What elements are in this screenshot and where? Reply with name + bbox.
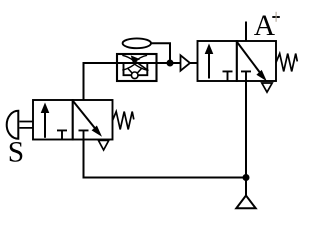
wire S bottom supply line <box>84 140 247 178</box>
svg-text:S: S <box>8 137 24 169</box>
reservoir (air volume) <box>123 38 151 48</box>
wire valve A bottom supply line <box>245 81 247 195</box>
valve S blocked port T right <box>79 130 89 139</box>
valve S body right box <box>73 100 113 140</box>
wire pilot apex to valve A left port <box>190 62 198 64</box>
wire valve A top working line <box>245 22 247 42</box>
valve A return spring <box>276 54 297 72</box>
node junction pilot <box>167 60 174 67</box>
valve A body right box <box>237 41 276 81</box>
valve S flow arrow <box>44 111 46 138</box>
svg-text:A: A <box>254 10 276 42</box>
throttle adjust arrow <box>135 61 148 70</box>
one-way flow control valve body <box>117 54 157 81</box>
valve A pilot actuator triangle <box>181 55 191 70</box>
valve A body left box <box>198 41 237 81</box>
node junction supply <box>243 174 250 181</box>
valve S exhaust port triangle <box>98 140 108 150</box>
wire S-output to flow-control to pilot node <box>84 63 181 100</box>
valve S pushbutton <box>7 111 19 139</box>
valve S body left box <box>33 100 73 140</box>
valve S exhaust path arrow <box>73 101 98 132</box>
label plus superscript <box>272 16 280 18</box>
valve A blocked port T right <box>241 71 251 81</box>
wire reservoir to node <box>151 43 170 63</box>
valve A blocked port T left <box>223 71 233 81</box>
valve A flow arrow <box>208 52 210 79</box>
compressed air supply source <box>236 196 255 209</box>
valve S return spring <box>113 112 134 130</box>
check valve seat <box>127 68 142 73</box>
valve A exhaust path arrow <box>237 42 263 76</box>
valve S blocked port T left <box>57 130 67 139</box>
bypass line <box>124 63 148 75</box>
check valve ball <box>131 72 138 79</box>
throttle arcs <box>122 55 147 70</box>
valve A exhaust port triangle <box>262 83 272 92</box>
